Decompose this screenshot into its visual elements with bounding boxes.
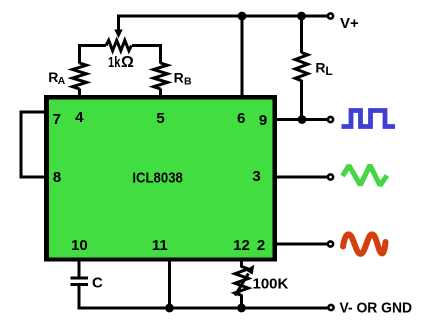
resistor RL zigzag	[295, 53, 308, 81]
wire pot 100K bottom	[240, 295, 243, 309]
svg-text:L: L	[325, 64, 332, 78]
wire RL bottom	[300, 80, 303, 120]
svg-text:A: A	[58, 75, 66, 87]
svg-text:7: 7	[53, 111, 61, 128]
wire pin 3 output	[277, 176, 329, 179]
terminal pin 9	[328, 117, 333, 122]
svg-text:2: 2	[257, 237, 265, 254]
svg-text:ICL8038: ICL8038	[132, 170, 183, 187]
square wave output symbol	[342, 111, 396, 127]
capacitor C plates	[71, 277, 89, 280]
wiper arrowhead	[114, 30, 122, 39]
wire RL top	[300, 16, 303, 53]
wire RA bottom	[78, 89, 81, 97]
wire pin 11 drop	[168, 261, 171, 308]
triangle wave output symbol	[343, 165, 388, 185]
terminal V+	[328, 13, 333, 18]
svg-text:9: 9	[259, 112, 267, 129]
svg-text:12: 12	[233, 237, 250, 254]
wire cap top	[78, 261, 81, 277]
svg-text:10: 10	[71, 237, 88, 254]
svg-text:R: R	[315, 60, 325, 76]
wire RB top	[159, 44, 162, 64]
terminal pin 2	[328, 241, 333, 246]
wire RA top	[78, 44, 81, 64]
junction RL pin9	[298, 115, 307, 124]
svg-text:11: 11	[152, 237, 168, 254]
svg-text:1k: 1k	[108, 54, 121, 71]
svg-text:V+: V+	[340, 15, 359, 32]
svg-text:5: 5	[156, 110, 164, 127]
wire pot horizontal	[80, 44, 107, 47]
svg-text:Ω: Ω	[121, 54, 134, 71]
svg-text:R: R	[174, 69, 184, 85]
wire bottom rail	[78, 307, 330, 310]
resistor RB zigzag	[154, 63, 168, 89]
svg-text:C: C	[92, 275, 103, 292]
junction bottom pot	[237, 304, 246, 313]
potentiometer 100K zigzag	[235, 267, 248, 296]
wire pot 100K top	[240, 261, 243, 268]
svg-text:4: 4	[75, 109, 84, 126]
terminal V-	[328, 305, 333, 310]
svg-text:3: 3	[252, 168, 260, 185]
wire left loop pins 7-8	[21, 112, 46, 177]
pot 100K arrow	[235, 274, 249, 296]
wire top rail V+	[119, 15, 331, 18]
terminal pin 3	[328, 174, 333, 179]
IC ICL8038 body	[44, 95, 277, 262]
potentiometer 1k zigzag	[106, 40, 132, 50]
svg-text:V- OR GND: V- OR GND	[340, 299, 413, 316]
wire cap bottom	[78, 286, 81, 310]
wire RB bottom	[159, 89, 162, 97]
svg-text:6: 6	[237, 110, 245, 127]
svg-text:8: 8	[53, 169, 61, 186]
junction bottom pin11	[165, 304, 174, 313]
sine wave output symbol	[343, 234, 386, 253]
junction top rail pin6	[238, 12, 247, 21]
svg-text:100K: 100K	[253, 276, 289, 293]
wire wiper drop	[117, 15, 120, 31]
resistor RA zigzag	[73, 63, 87, 89]
svg-text:B: B	[184, 75, 192, 87]
wire pin 9 output	[277, 118, 329, 121]
wire pin 2 output	[277, 243, 329, 246]
wire pin 6 drop from rail	[241, 16, 244, 96]
junction top rail RL	[297, 12, 306, 21]
